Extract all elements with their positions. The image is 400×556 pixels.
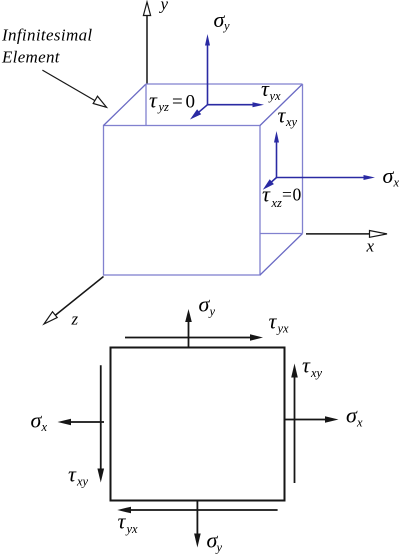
svg-text:τ: τ	[262, 182, 271, 207]
cube back right edge	[302, 84, 304, 234]
svg-text:τ: τ	[269, 309, 278, 334]
svg-text:x: x	[393, 176, 400, 190]
tau_xz stress arrow (3D, right face, toward viewer, zero)	[263, 178, 277, 190]
tau_xy label (2D left)	[68, 462, 89, 489]
tau_xy label (2D right)	[302, 353, 323, 381]
svg-text:x: x	[356, 416, 363, 430]
sigma_y stress arrow (3D, top face, up)	[205, 34, 210, 105]
svg-text:τ: τ	[149, 88, 158, 113]
svg-text:=: =	[282, 185, 292, 205]
svg-text:yx: yx	[276, 322, 290, 336]
svg-text:y: y	[222, 19, 230, 33]
svg-text:z: z	[71, 310, 79, 329]
sigma_x label (2D left)	[31, 408, 48, 435]
svg-text:τ: τ	[68, 462, 77, 487]
tau_yz = 0 label	[149, 88, 195, 115]
label: Infinitesimal Element caption	[1, 26, 93, 67]
svg-text:xy: xy	[76, 475, 89, 489]
sigma_y label (2D top)	[199, 292, 216, 319]
cube back left edge (partial)	[145, 84, 147, 126]
svg-text:yx: yx	[268, 89, 282, 103]
svg-text:τ: τ	[118, 509, 127, 534]
svg-text:xz: xz	[271, 196, 283, 210]
svg-text:Infinitesimal: Infinitesimal	[1, 26, 93, 45]
svg-text:y: y	[208, 305, 216, 319]
y-axis	[143, 2, 150, 84]
cube back top edge	[146, 83, 303, 85]
tau_xz = 0 label	[262, 182, 302, 211]
2D element square	[111, 348, 285, 501]
svg-text:yz: yz	[157, 100, 170, 114]
sigma_y label (3D)	[214, 7, 231, 33]
tau_yx label (3D)	[261, 76, 281, 103]
tau_xy label (3D)	[278, 103, 298, 130]
tau_yx label (2D top)	[269, 309, 290, 336]
tau_xy arrow (2D right, up)	[291, 364, 298, 484]
cube top-right depth edge	[260, 84, 303, 126]
svg-text:0: 0	[186, 92, 196, 113]
svg-text:y: y	[215, 541, 223, 555]
sigma_x label (3D)	[383, 163, 400, 190]
svg-text:x: x	[41, 420, 48, 434]
sigma_y arrow (2D top, up)	[185, 309, 192, 348]
svg-text:yx: yx	[125, 522, 139, 536]
svg-text:=: =	[172, 92, 183, 113]
svg-text:xy: xy	[285, 115, 298, 129]
z-axis	[44, 277, 104, 325]
tau_xy arrow (2D left, down)	[97, 365, 104, 482]
tau_yz stress arrow (3D, top face, toward viewer, zero)	[190, 105, 208, 120]
cube front face	[104, 126, 261, 276]
svg-text:Element: Element	[1, 48, 61, 67]
sigma_y label (2D bottom)	[207, 528, 223, 555]
sigma_x arrow (2D right, right)	[285, 416, 339, 423]
svg-text:xy: xy	[310, 366, 323, 380]
svg-text:0: 0	[293, 185, 302, 205]
leader arrow from caption to cube	[42, 70, 106, 107]
sigma_y arrow (2D bottom, down)	[194, 501, 201, 548]
svg-text:τ: τ	[302, 353, 311, 378]
tau_yx arrow (2D top, right)	[125, 334, 263, 341]
svg-text:y: y	[159, 0, 169, 14]
tau_yx label (2D bottom)	[118, 509, 139, 537]
cube back bottom edge (partial)	[260, 233, 303, 235]
cube top-left depth edge	[104, 84, 147, 126]
tau_yx arrow (2D bottom, left)	[117, 507, 277, 514]
tau_xy stress arrow (3D, right face, up)	[274, 131, 279, 178]
cube bottom-right depth edge	[260, 234, 303, 276]
sigma_x arrow (2D left, left)	[58, 419, 105, 426]
tau_yx stress arrow (3D, top face, right)	[208, 102, 265, 107]
sigma_x stress arrow (3D, right face, right)	[277, 175, 376, 180]
x-axis	[306, 231, 387, 238]
sigma_x label (2D right)	[346, 403, 363, 430]
svg-text:x: x	[366, 237, 375, 256]
